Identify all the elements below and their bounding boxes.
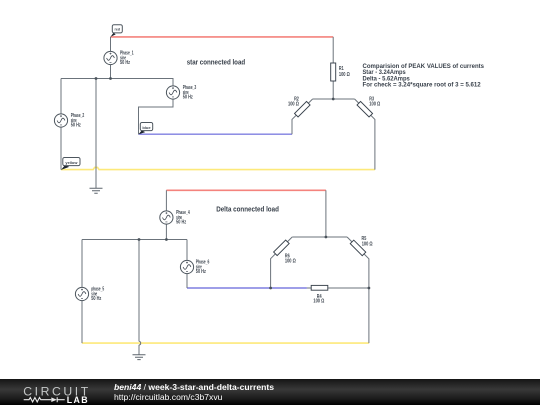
wire: red net (top): [111, 36, 334, 38]
voltage source Phase_3: [166, 85, 196, 100]
ground (delta): [133, 355, 146, 360]
voltage source Phase_2: [54, 113, 84, 128]
wire: phase_3 branch: [139, 86, 174, 134]
wire: ground stem (delta): [139, 240, 141, 355]
wire: R6 branch: [271, 237, 293, 288]
svg-text:100 Ω: 100 Ω: [288, 101, 299, 107]
svg-text:Star - 3.24Amps: Star - 3.24Amps: [363, 70, 407, 76]
svg-text:50 Hz: 50 Hz: [176, 220, 186, 226]
svg-text:LAB: LAB: [67, 395, 89, 405]
node: R4/R5 dot: [368, 287, 371, 290]
wire: blue net (delta): [187, 287, 307, 289]
node: delta bus dots: [138, 238, 168, 241]
svg-text:50 Hz: 50 Hz: [91, 296, 101, 302]
resistor R6: [274, 240, 296, 264]
resistor R1: [331, 63, 350, 81]
text: Delta connected load: [216, 207, 279, 214]
svg-text:50 Hz: 50 Hz: [71, 123, 81, 129]
wire: phase_6 branch: [186, 240, 188, 289]
svg-text:100 Ω: 100 Ω: [339, 72, 350, 78]
voltage source Phase_6: [180, 260, 209, 275]
wire: phase_5 branch: [81, 240, 83, 344]
resistor R5: [350, 236, 372, 256]
wire: phase_1 vertical: [110, 37, 112, 79]
text: comparison note: [363, 64, 485, 89]
wire: yellow net (delta, hop over ground wire): [82, 342, 369, 344]
text: star connected load: [187, 59, 246, 66]
voltage source Phase_1: [104, 51, 134, 66]
footer bar: [0, 379, 540, 405]
wire: delta bus: [82, 239, 187, 241]
svg-text:100 Ω: 100 Ω: [313, 299, 324, 305]
flag: yellow: [61, 158, 80, 170]
svg-text:Comparision of PEAK VALUES of: Comparision of PEAK VALUES of currents: [363, 64, 485, 70]
node: bus junction dots: [95, 77, 112, 80]
svg-text:50 Hz: 50 Hz: [120, 60, 130, 66]
wire: phase_2 branch: [60, 79, 62, 170]
wire: R3 branch: [355, 99, 375, 170]
wire: yellow net (top, with hop over ground wire): [61, 167, 375, 169]
ground (star): [90, 188, 103, 193]
voltage source Phase_4: [160, 210, 190, 225]
svg-text:100 Ω: 100 Ω: [362, 242, 373, 248]
node: star point: [332, 98, 335, 101]
wire: R1 vertical: [332, 37, 334, 99]
wire: delta right vertical: [325, 190, 327, 237]
wire: R4 leads: [307, 287, 369, 289]
svg-text:For check = 3.24*square root o: For check = 3.24*square root of 3 = 5.61…: [363, 83, 482, 89]
wire: R5 branch: [347, 237, 369, 343]
flag: blue: [138, 123, 152, 135]
svg-text:100 Ω: 100 Ω: [285, 258, 296, 264]
svg-text:Delta connected load: Delta connected load: [216, 207, 279, 214]
wire: phase_4 vertical: [165, 190, 167, 239]
wire: star apex: [313, 98, 355, 100]
svg-text:yellow: yellow: [65, 161, 77, 165]
resistor R3: [357, 96, 380, 117]
CircuitLab logo: [0, 379, 240, 405]
node: blue/R6 dot: [269, 287, 272, 290]
svg-text:50 Hz: 50 Hz: [196, 269, 206, 275]
wire: blue net (top): [139, 133, 293, 135]
wire: ground stem (star): [95, 79, 97, 189]
wire: delta apex: [292, 236, 347, 238]
resistor R2: [288, 96, 310, 117]
svg-text:Delta - 5.62Amps: Delta - 5.62Amps: [363, 76, 411, 82]
flag: red: [111, 25, 123, 37]
svg-text:star connected load: star connected load: [187, 59, 246, 66]
wire: red net (delta top): [166, 189, 326, 191]
resistor R4: [311, 285, 328, 304]
svg-text:red: red: [115, 27, 121, 31]
wire: top bus: [61, 79, 173, 87]
wire: R2 branch: [292, 99, 313, 134]
node: delta apex dot: [325, 236, 328, 239]
svg-text:R1: R1: [339, 66, 344, 72]
svg-text:100 Ω: 100 Ω: [369, 101, 380, 107]
svg-text:50 Hz: 50 Hz: [183, 95, 193, 101]
voltage source phase_5: [75, 287, 104, 302]
footer text: [114, 382, 274, 402]
logo resistor+diode icon: [24, 398, 52, 402]
svg-text:blue: blue: [142, 126, 150, 130]
